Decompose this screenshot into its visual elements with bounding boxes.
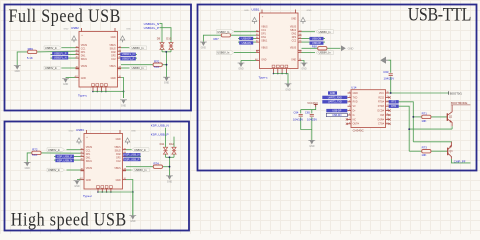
svg-text:5.1K: 5.1K — [32, 153, 38, 157]
GND arrow port right of R68 — [341, 45, 346, 51]
U14 pins and pin names — [348, 92, 352, 94]
resistor R71 — [422, 115, 431, 118]
svg-text:BOOTMODE: BOOTMODE — [451, 101, 467, 105]
diode D11 — [165, 144, 167, 147]
svg-text:DCD#: DCD# — [378, 111, 385, 113]
svg-text:USB6V_In: USB6V_In — [45, 66, 57, 70]
svg-text:12: 12 — [387, 109, 389, 111]
svg-text:CC2: CC2 — [292, 41, 297, 43]
USB1 shield rail wire — [274, 74, 289, 84]
svg-text:DN1: DN1 — [261, 37, 266, 39]
svg-text:A8: A8 — [81, 168, 83, 171]
svg-text:10: 10 — [387, 118, 389, 120]
svg-text:15: 15 — [387, 96, 389, 98]
svg-text:GND: GND — [131, 130, 136, 132]
svg-text:B4: B4 — [124, 148, 126, 150]
svg-text:5.1K: 5.1K — [27, 56, 33, 60]
svg-text:UART2_TXD: UART2_TXD — [328, 101, 342, 104]
svg-text:GND: GND — [64, 28, 69, 30]
ground for R69 — [15, 66, 19, 70]
port USB6V_In (USB1 left lower) — [216, 51, 234, 55]
svg-text:3: 3 — [349, 100, 350, 102]
svg-text:USB6V_In: USB6V_In — [319, 30, 331, 34]
USB2 shield pins — [92, 87, 94, 92]
svg-text:TXD: TXD — [353, 97, 358, 99]
svg-text:GND: GND — [25, 168, 30, 170]
svg-text:USB6V_In: USB6V_In — [134, 148, 146, 152]
svg-text:CC1: CC1 — [261, 30, 266, 32]
svg-text:8: 8 — [349, 122, 350, 124]
net label USB-DP (inverse, U14) — [326, 109, 347, 112]
svg-text:B1: B1 — [299, 59, 301, 61]
net label DTR (inverse) — [389, 105, 399, 108]
svg-text:R73: R73 — [422, 146, 428, 150]
ground for D11 D12 R74 — [167, 176, 171, 180]
wire USB1 A8 to port — [234, 52, 256, 54]
power arrow 5V input — [380, 57, 386, 64]
svg-text:USB1FL_N: USB1FL_N — [122, 53, 135, 56]
svg-text:A7: A7 — [256, 40, 258, 43]
svg-text:USB1FL_N: USB1FL_N — [54, 57, 67, 60]
svg-text:A12: A12 — [255, 58, 258, 61]
wire USB3 SBU2 row to R74 — [126, 166, 153, 168]
USB3 shield pins — [97, 189, 99, 192]
net label USB1FL_P (inverse, S1 right) — [120, 57, 136, 61]
svg-text:CHIP_PF: CHIP_PF — [454, 159, 466, 163]
svg-text:B8: B8 — [119, 67, 121, 69]
svg-text:11: 11 — [387, 114, 389, 116]
svg-text:VCC: VCC — [379, 93, 384, 95]
wire USB3 A8 to port — [67, 169, 81, 171]
wire USB3 B4 to port — [126, 149, 132, 151]
svg-text:B7: B7 — [299, 37, 301, 39]
svg-text:SBU1: SBU1 — [86, 161, 93, 163]
wire USB1 A12 to ground — [241, 60, 256, 62]
wire 5V arrow to C63 to U14 VCC — [388, 60, 390, 72]
svg-text:USB6V_In: USB6V_In — [48, 168, 60, 172]
wire R67 to pin A5 — [231, 34, 257, 36]
svg-text:CC1: CC1 — [81, 49, 86, 51]
wire Q2 emitter down — [451, 126, 453, 129]
diode D10 — [170, 40, 172, 42]
net label USB1FL_P (inverse, S1 left) — [52, 52, 68, 56]
svg-text:A6: A6 — [76, 52, 78, 55]
USB1 pin stubs — [256, 31, 260, 33]
port USB6V_In (S2 left lower) — [47, 168, 65, 172]
svg-text:GND: GND — [307, 10, 312, 12]
resistor R69 — [28, 50, 37, 53]
wire USB2 A4 to port — [62, 47, 76, 49]
svg-text:B4: B4 — [119, 46, 121, 48]
svg-text:4: 4 — [349, 105, 350, 107]
svg-text:GND: GND — [164, 83, 169, 85]
svg-text:GND: GND — [111, 37, 116, 39]
svg-text:B5: B5 — [299, 41, 301, 43]
wire USB2 B1 to shield rail — [121, 78, 124, 99]
svg-text:GND: GND — [291, 59, 296, 61]
port USB6V_In (USB1 right lower) — [316, 51, 334, 55]
svg-text:B4: B4 — [299, 30, 301, 32]
svg-text:USB-DN: USB-DN — [332, 114, 341, 117]
svg-text:Type-c: Type-c — [259, 76, 269, 80]
svg-text:D9: D9 — [157, 36, 161, 40]
svg-text:USB6V_In: USB6V_In — [217, 51, 229, 55]
port BOOT0/1 — [448, 91, 450, 95]
svg-text:GND: GND — [130, 221, 135, 223]
svg-text:CTS#: CTS# — [378, 124, 385, 126]
svg-text:A12: A12 — [80, 177, 83, 180]
svg-text:GND: GND — [81, 78, 86, 80]
svg-text:104/25V: 104/25V — [307, 117, 317, 121]
wire R70 to ground node — [162, 64, 166, 66]
svg-text:VCC3V3: VCC3V3 — [307, 101, 318, 105]
svg-text:VBUS: VBUS — [261, 47, 268, 49]
Full Speed USB section frame — [5, 5, 192, 111]
svg-text:SBU1: SBU1 — [261, 41, 268, 43]
svg-text:R74: R74 — [154, 162, 160, 166]
svg-text:U14: U14 — [351, 85, 357, 89]
svg-text:Type-c: Type-c — [83, 194, 93, 198]
svg-text:GND: GND — [261, 59, 266, 61]
net label USB-DP (inverse, USB1 right) — [310, 41, 324, 44]
svg-text:DP2: DP2 — [116, 158, 121, 160]
svg-text:DTR#: DTR# — [378, 106, 385, 108]
wire USB2 DP2 label net — [121, 57, 137, 59]
power port VCC3V3 — [315, 104, 317, 107]
port USB6V_In (S2 right lower) — [132, 168, 150, 172]
diode D12 — [173, 144, 175, 147]
port USB6V_In (S2 right upper) — [132, 148, 150, 152]
port USB6V_In (S1 left lower) — [44, 66, 62, 70]
net label K5P_USB_P (inverse, S2 right) — [123, 158, 140, 162]
wire USB1 B8 to port — [302, 52, 316, 54]
net label USB1FL_N (inverse, S1 right) — [120, 53, 136, 57]
svg-text:USB-DN: USB-DN — [312, 38, 321, 41]
svg-text:A6: A6 — [256, 36, 258, 39]
svg-text:USB6V_In: USB6V_In — [217, 30, 229, 34]
svg-text:16: 16 — [387, 92, 389, 94]
net label K5P_USB_N (inverse, S2 left) — [55, 159, 74, 163]
svg-text:2: 2 — [349, 96, 350, 98]
ground for USB2 shield — [121, 100, 125, 104]
svg-text:NC: NC — [353, 119, 357, 121]
svg-text:B1: B1 — [119, 76, 121, 78]
svg-text:USB1FL_P: USB1FL_P — [54, 52, 67, 55]
USB-TTL section frame — [198, 5, 477, 171]
svg-text:D12: D12 — [169, 142, 174, 146]
svg-text:VBUS: VBUS — [81, 45, 88, 47]
svg-text:DN2: DN2 — [111, 52, 116, 54]
wire USB3 A12 to ground — [77, 179, 81, 181]
svg-text:CC2: CC2 — [111, 59, 116, 61]
ground for USB3 A12 — [75, 181, 79, 185]
wire R73 base feed — [409, 150, 421, 152]
svg-text:13: 13 — [387, 105, 389, 107]
svg-text:VBUS: VBUS — [86, 168, 93, 170]
wire U14 DTR to vertical bus — [389, 106, 409, 151]
wire U14 VCC to BOOT0/1 port — [389, 92, 449, 94]
wire R71 base feed — [413, 116, 421, 118]
svg-text:GND: GND — [291, 18, 296, 20]
svg-text:R69: R69 — [28, 47, 34, 51]
svg-text:A7: A7 — [76, 56, 78, 59]
wire diode pair D9 D10 bottom rail — [162, 51, 171, 53]
USB2 shield rail wire — [93, 92, 124, 99]
wire USB3 B1 to shield rail — [126, 180, 133, 216]
port USB6V_In (USB1 left upper) — [216, 30, 234, 34]
svg-text:R71: R71 — [422, 111, 428, 115]
svg-text:RTS: RTS — [391, 101, 396, 104]
svg-text:6: 6 — [349, 114, 350, 116]
svg-text:VBUS: VBUS — [114, 147, 121, 149]
svg-text:A4: A4 — [256, 29, 258, 32]
wire USB2 DP1 label net — [51, 54, 76, 56]
wire USB-DN label to pin A7 — [238, 41, 256, 43]
wire USB1 B1 to ground — [302, 61, 305, 63]
svg-text:USB-DP: USB-DP — [242, 37, 251, 40]
svg-text:USB1FL_P: USB1FL_P — [122, 58, 135, 61]
svg-text:10K: 10K — [421, 153, 426, 157]
svg-text:Type-c: Type-c — [78, 94, 88, 98]
svg-text:USB-DP: USB-DP — [332, 110, 341, 113]
USB2 top-left GND power symbol — [72, 36, 77, 40]
svg-text:USB6V_In: USB6V_In — [132, 66, 144, 70]
svg-text:R72: R72 — [32, 148, 38, 152]
wire U14 RTS to vertical bus — [389, 102, 413, 142]
wire R73 to Q3 base — [431, 150, 448, 152]
svg-text:USB6V_In: USB6V_In — [45, 46, 57, 50]
svg-text:DTR: DTR — [391, 105, 396, 108]
ground for USB1 A12 — [239, 63, 243, 67]
svg-text:DN2: DN2 — [292, 34, 297, 36]
svg-text:A6: A6 — [81, 154, 83, 157]
svg-text:UART2_RXD: UART2_RXD — [328, 96, 342, 99]
High speed USB section frame — [5, 122, 190, 231]
wire USB-DP label to pin A6 — [238, 38, 256, 40]
svg-text:VBUS: VBUS — [86, 147, 93, 149]
svg-text:GND: GND — [116, 139, 121, 141]
svg-text:R70: R70 — [154, 59, 160, 63]
svg-text:VBUS: VBUS — [290, 47, 297, 49]
wire USB3 DN2 label net — [126, 156, 141, 158]
wire USB-DP label to pin B7 — [302, 41, 326, 43]
wire Q3 collector feed — [413, 141, 452, 143]
svg-text:GND: GND — [121, 105, 126, 107]
svg-text:GND: GND — [285, 89, 290, 91]
svg-text:GND: GND — [309, 146, 314, 148]
net label USB-DP (inverse, USB1 left) — [239, 37, 253, 40]
svg-text:DP2: DP2 — [292, 37, 297, 39]
svg-text:VBUS: VBUS — [114, 168, 121, 170]
svg-text:USB6V_In: USB6V_In — [132, 46, 144, 50]
net label RTS (inverse) — [389, 100, 399, 103]
USB2 top-right GND power symbol — [120, 36, 125, 40]
svg-text:10K: 10K — [421, 119, 426, 123]
svg-text:VBUS: VBUS — [109, 66, 116, 68]
svg-text:CC2: CC2 — [116, 161, 121, 163]
svg-text:DP1: DP1 — [81, 52, 86, 54]
wire USB1 A4 to port — [234, 31, 256, 33]
svg-text:GND: GND — [301, 69, 306, 71]
wire net USB1FL_P to diode D10 — [160, 28, 172, 41]
svg-text:R67: R67 — [214, 37, 220, 41]
svg-text:GND: GND — [63, 84, 68, 86]
connector USB1 Type-C body — [260, 13, 299, 69]
svg-text:USB1: USB1 — [252, 7, 260, 11]
wire USB2 A8 to port — [62, 67, 76, 69]
resistor R74 — [153, 165, 162, 168]
diode D9 — [161, 40, 163, 42]
ground for C64 C65 — [310, 140, 314, 144]
ground for USB1 B1 — [302, 63, 306, 67]
transistor Q3 — [447, 148, 449, 156]
svg-text:BOOT0/1: BOOT0/1 — [450, 92, 462, 96]
net label K5P_USB_P (inverse, S2 left) — [55, 155, 74, 159]
svg-text:USB-DN: USB-DN — [242, 42, 251, 45]
svg-text:Full Speed USB: Full Speed USB — [9, 5, 121, 27]
svg-text:DP1: DP1 — [261, 34, 266, 36]
svg-text:RTS#: RTS# — [378, 102, 385, 104]
svg-text:VBUS: VBUS — [109, 45, 116, 47]
wire net USB1FL_N to diode D9 — [160, 24, 163, 41]
wire USB3 DP2 label net — [126, 159, 141, 161]
port USB6V_In (S1 right upper) — [129, 46, 147, 50]
connector USB2 Type-C body — [79, 32, 118, 88]
svg-text:GND: GND — [126, 28, 131, 30]
svg-text:SBU1: SBU1 — [81, 59, 88, 61]
wire R72 net — [27, 153, 32, 162]
wire USB3 DN1 label net — [54, 159, 81, 161]
wire USB2 B8 to port — [121, 67, 130, 69]
svg-text:GND: GND — [111, 78, 116, 80]
svg-text:DSR#: DSR# — [378, 119, 385, 121]
ground for USB3 shield — [131, 216, 135, 220]
port USB6V_In (S1 right lower) — [129, 66, 147, 70]
svg-text:USB6V_In: USB6V_In — [135, 168, 147, 172]
svg-text:D-: D- — [353, 115, 356, 117]
svg-text:GND: GND — [69, 130, 74, 132]
svg-text:5.1K: 5.1K — [154, 65, 160, 69]
USB3 pin stubs — [81, 149, 85, 151]
svg-text:9: 9 — [387, 122, 388, 124]
transistor Q2 — [446, 113, 448, 121]
resistor R73 — [422, 150, 431, 153]
ground for D9 D10 R70 — [164, 77, 168, 81]
svg-text:A5: A5 — [76, 49, 78, 52]
svg-text:USB6V_In: USB6V_In — [48, 148, 60, 152]
svg-text:B8: B8 — [124, 169, 126, 171]
wire diode pair D11 D12 bottom rail — [166, 156, 175, 158]
net label K5P_USB_N (inverse, S2 right) — [123, 153, 140, 157]
svg-text:A5: A5 — [256, 33, 258, 36]
svg-text:B6: B6 — [119, 50, 121, 52]
net label USB-DN (inverse, USB1 left) — [239, 41, 253, 44]
wire net K5P_USB_P to diode D12 — [173, 137, 175, 144]
svg-text:GND: GND — [167, 181, 172, 183]
svg-text:D11: D11 — [160, 142, 165, 146]
USB1 shield pins — [273, 69, 275, 74]
svg-text:RXD: RXD — [353, 102, 358, 104]
USB2 pin stubs — [76, 47, 80, 49]
ground for R67 — [201, 42, 205, 46]
wire capacitor bottoms to ground — [301, 117, 312, 129]
svg-text:DP2: DP2 — [111, 56, 116, 58]
wire R69 net — [17, 52, 27, 66]
svg-text:SBU2: SBU2 — [110, 49, 117, 51]
svg-text:VBUS: VBUS — [290, 27, 297, 29]
svg-text:VBUS: VBUS — [81, 66, 88, 68]
svg-text:K5P_USB_N: K5P_USB_N — [57, 158, 72, 162]
USB3 top-left GND power symbol — [77, 138, 82, 142]
svg-text:B6: B6 — [299, 34, 301, 36]
svg-text:GND: GND — [238, 69, 243, 71]
wire USB1 B4 to port — [302, 31, 316, 33]
svg-text:DP1: DP1 — [86, 154, 91, 156]
svg-text:CC1: CC1 — [86, 151, 91, 153]
svg-text:K5P_USB_N: K5P_USB_N — [124, 153, 139, 157]
resistor R68 — [318, 47, 327, 50]
wire USB3 A4 to port — [67, 149, 81, 151]
svg-text:C64: C64 — [294, 111, 299, 115]
no-connect marks on unused U14 pins — [389, 96, 391, 98]
svg-text:USB1FL_P: USB1FL_P — [144, 26, 159, 30]
ground for USB1 shield — [286, 84, 290, 88]
ground for R72 — [25, 162, 29, 166]
svg-text:DN2: DN2 — [116, 154, 121, 156]
capacitor C63 — [389, 73, 393, 75]
net label UART2_TXD (inverse) — [322, 100, 347, 103]
net label USB-DN (boxed, U14) — [326, 113, 347, 116]
net label USB-DN (inverse, USB1 right) — [310, 37, 324, 40]
port USB6V_In (S1 left upper) — [44, 46, 62, 50]
wire R71 to Q2 base — [431, 116, 447, 118]
USB1 top-left GND power symbol — [252, 17, 257, 21]
svg-text:A12: A12 — [75, 75, 78, 78]
svg-text:GND: GND — [74, 186, 79, 188]
connector USB3 Type-C body — [84, 134, 123, 190]
net label GND (inverse, U14 pin1) — [328, 91, 337, 94]
wire R70 to pin — [121, 64, 153, 66]
USB1 top-right GND power symbol — [301, 17, 306, 21]
svg-text:B1: B1 — [124, 178, 126, 180]
svg-text:High speed USB: High speed USB — [11, 208, 127, 230]
svg-text:GND: GND — [86, 180, 91, 182]
svg-text:R68: R68 — [312, 44, 317, 48]
net label USB1FL_N (inverse, S1 left) — [52, 56, 68, 60]
svg-text:CH340C: CH340C — [353, 129, 364, 133]
ground for USB2 A12 — [63, 79, 67, 83]
svg-text:D10: D10 — [166, 36, 171, 40]
wire USB2 A12 to ground — [66, 77, 76, 79]
wire USB3 DP1 label net — [54, 156, 81, 158]
svg-text:GND: GND — [201, 48, 206, 50]
svg-text:VBUS: VBUS — [261, 27, 268, 29]
IC U14 CH340C body — [351, 90, 386, 128]
wire Q3 emitter to CHIP_PF — [452, 159, 471, 163]
resistor R70 — [153, 63, 162, 66]
svg-text:C63: C63 — [383, 70, 389, 74]
wire USB-DN label to pin B6 — [302, 38, 326, 40]
svg-text:1: 1 — [349, 92, 350, 94]
svg-text:GND: GND — [330, 92, 336, 95]
svg-text:7: 7 — [349, 118, 350, 120]
wire R74 to ground node — [163, 166, 170, 168]
svg-text:5: 5 — [349, 109, 350, 111]
svg-text:A8: A8 — [76, 66, 78, 69]
svg-text:SBU2: SBU2 — [290, 30, 297, 32]
svg-text:104/25V: 104/25V — [384, 76, 395, 80]
net label UART2_RXD (inverse) — [322, 96, 347, 99]
